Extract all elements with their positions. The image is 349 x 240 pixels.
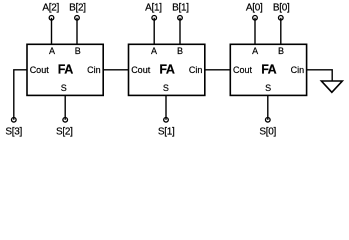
terminal S[3] [12,118,17,123]
terminal B[2] [75,15,80,20]
full adder U0 body (bit 0) [230,44,306,95]
wire A[2] to U2.A [51,18,53,45]
svg-text:A[0]: A[0] [246,3,263,14]
svg-text:B: B [75,46,81,56]
svg-text:S[2]: S[2] [56,127,73,138]
svg-text:Cin: Cin [189,65,203,75]
terminal A[2] [49,15,54,20]
svg-text:A[1]: A[1] [145,3,162,14]
terminal S[1] [164,118,169,123]
svg-text:B[2]: B[2] [69,3,86,14]
wire U1.S to S[1] terminal [165,95,167,119]
svg-text:Cout: Cout [233,65,253,75]
terminal A[1] [152,15,157,20]
svg-text:A[2]: A[2] [42,3,59,14]
wire U1.Cout to U2.Cin (carry net C2) [103,69,128,71]
wire U0.Cin to ground (carry-in = 0) [307,70,333,81]
wire B[0] to U0.B [280,18,282,45]
svg-text:B[1]: B[1] [172,3,189,14]
terminal B[0] [279,15,284,20]
svg-text:S: S [265,83,271,93]
svg-text:Cout: Cout [30,65,50,75]
svg-text:S: S [61,83,67,93]
svg-text:B: B [278,46,284,56]
wire B[1] to U1.B [179,18,181,45]
svg-text:Cout: Cout [131,65,151,75]
svg-text:A: A [49,46,55,56]
ground symbol (logic 0 on Cin) [321,81,342,92]
terminal S[2] [63,118,68,123]
svg-text:FA: FA [261,63,276,77]
svg-text:A: A [252,46,258,56]
terminal A[0] [253,15,258,20]
svg-text:S: S [163,83,169,93]
svg-text:S[3]: S[3] [5,127,22,138]
svg-text:S[1]: S[1] [158,127,175,138]
wire U0.Cout to U1.Cin (carry net C1) [205,69,231,71]
svg-text:B: B [177,46,183,56]
terminal B[1] [178,15,183,20]
svg-text:FA: FA [159,63,174,77]
svg-text:Cin: Cin [87,65,101,75]
wire B[2] to U2.B [76,18,78,45]
svg-text:A: A [151,46,157,56]
terminal S[0] [266,118,271,123]
full adder U2 body (bit 2) [27,44,103,95]
wire A[1] to U1.A [153,18,155,45]
wire U2.Cout to S[3] terminal [14,70,27,120]
wire U2.S to S[2] terminal [64,95,66,119]
svg-text:B[0]: B[0] [273,3,290,14]
full adder U1 body (bit 1) [129,44,205,95]
svg-text:FA: FA [58,63,73,77]
svg-text:S[0]: S[0] [259,127,276,138]
svg-text:Cin: Cin [291,65,305,75]
wire A[0] to U0.A [254,18,256,45]
wire U0.S to S[0] terminal [267,95,269,119]
